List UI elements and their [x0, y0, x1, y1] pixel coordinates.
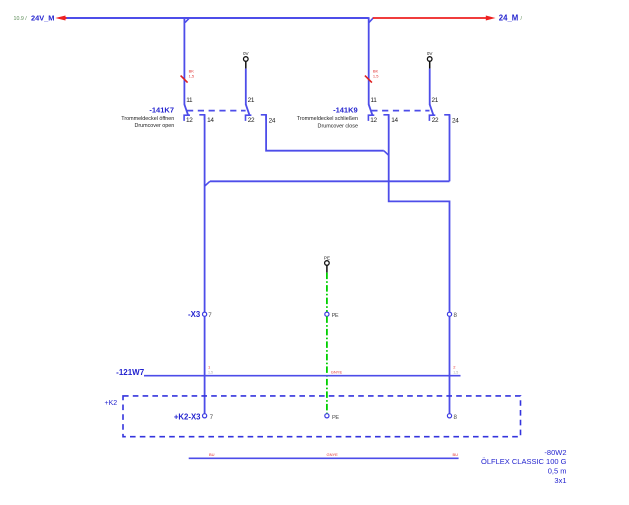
- svg-text:Trommeldeckel öffnen: Trommeldeckel öffnen: [121, 116, 174, 122]
- svg-text:PE: PE: [332, 313, 339, 319]
- wire K9-24 down to net A horizontal: [449, 115, 451, 182]
- svg-text:12: 12: [370, 117, 377, 124]
- svg-text:PE: PE: [332, 415, 339, 421]
- device tag -141K7 with function text: [121, 105, 174, 128]
- wire drop to -141K9 pin 11: [368, 17, 370, 105]
- terminal -X3:8: [447, 312, 457, 319]
- svg-text:22: 22: [432, 117, 439, 124]
- svg-text:+K2: +K2: [105, 400, 118, 407]
- wire drop to -141K7 pin 11: [183, 18, 185, 105]
- svg-text:-141K9: -141K9: [333, 105, 358, 114]
- svg-text:-80W2: -80W2: [544, 448, 566, 457]
- terminal +K2-X3:PE: [325, 414, 340, 421]
- svg-text:Trommeldeckel schließen: Trommeldeckel schließen: [297, 116, 358, 122]
- svg-text:PE: PE: [324, 256, 330, 261]
- svg-text:1,5: 1,5: [453, 370, 458, 374]
- cable -121W7 conductor label 2 / 1,5: [453, 364, 458, 374]
- svg-text:11: 11: [186, 97, 193, 104]
- svg-text:GNYE: GNYE: [331, 369, 343, 374]
- svg-text:3x1: 3x1: [554, 476, 566, 485]
- pin labels -141K7: [186, 97, 276, 124]
- svg-text:21: 21: [432, 97, 439, 104]
- node 24_M target cross-reference text: [499, 14, 523, 23]
- svg-text:+K2-X3: +K2-X3: [174, 413, 201, 422]
- wire top bus 24V_M: [67, 17, 369, 19]
- svg-text:11: 11: [371, 97, 378, 104]
- svg-text:1,5: 1,5: [189, 73, 195, 78]
- wire net A horizontal K7-14 to K9-24: [210, 180, 450, 182]
- svg-text:8: 8: [454, 312, 458, 319]
- device tag -141K9 with function text: [297, 105, 358, 129]
- mechanical linkage dashes -141K7: [187, 110, 246, 112]
- junction bevel at K7 drop: [185, 18, 190, 23]
- wire -X3:PE down to +K2-X3:PE green: [326, 316, 328, 413]
- pin labels -141K9: [370, 97, 459, 124]
- wire K7-24 down and right: [266, 115, 384, 151]
- wire label BK 1,5 on K7 drop (red slash): [181, 69, 195, 83]
- wire label BK 1,5 on K9 drop (red slash): [365, 69, 379, 83]
- wire -X3:8 down to +K2-X3:8: [449, 316, 451, 413]
- cable -121W7 line: [116, 368, 460, 377]
- wire K9-14 down then right: [389, 115, 450, 312]
- junction bevel at K9 corner: [369, 18, 374, 23]
- mechanical linkage dashes -141K9: [371, 110, 429, 112]
- svg-text:14: 14: [391, 117, 398, 124]
- terminal -X3:PE: [325, 312, 339, 319]
- svg-text:-141K7: -141K7: [149, 105, 174, 114]
- svg-text:ÖLFLEX CLASSIC 100 G: ÖLFLEX CLASSIC 100 G: [481, 457, 567, 466]
- wire 0V to -141K7 pin 21: [245, 69, 247, 105]
- svg-text:-X3: -X3: [188, 310, 201, 319]
- contact -141K7 changeover 11-12-14: lever 11: [184, 104, 205, 121]
- svg-text:8: 8: [454, 414, 458, 421]
- wire K7-14 down to -X3:7: [204, 115, 206, 312]
- contact -141K9 changeover 21-22-24: lever 21: [429, 104, 449, 121]
- cable -80W2 line: [189, 457, 459, 459]
- node 24V_M source cross-reference text: [14, 14, 55, 23]
- svg-text:7: 7: [210, 414, 214, 421]
- earth potential PE circle and stub: [324, 256, 330, 273]
- cable -121W7 conductor label 1 / 1,5: [208, 364, 213, 374]
- svg-text:BU: BU: [453, 452, 459, 457]
- svg-text:0V: 0V: [427, 51, 434, 56]
- svg-text:0,5 m: 0,5 m: [548, 467, 567, 476]
- svg-text:21: 21: [248, 97, 255, 104]
- terminal +K2-X3:7: [174, 413, 214, 422]
- svg-text:24: 24: [452, 117, 459, 124]
- interruption point arrow 24_M (right, pointing right): [373, 16, 496, 21]
- terminal +K2-X3:8: [447, 414, 457, 421]
- wire 0V to -141K9 pin 21: [429, 69, 431, 105]
- svg-text:14: 14: [207, 117, 214, 124]
- junction bevel K7-24 into K9-14 wire: [384, 151, 389, 156]
- svg-text:0V: 0V: [243, 51, 250, 56]
- svg-text:-121W7: -121W7: [116, 368, 145, 377]
- contact -141K9 changeover 11-12-14: lever 11: [368, 104, 388, 121]
- potential connection 0V (left) circle and stub: [243, 51, 250, 69]
- svg-text:22: 22: [248, 117, 255, 124]
- contact -141K7 changeover 21-22-24: lever 21: [246, 104, 267, 121]
- terminal -X3:7: [188, 310, 212, 319]
- svg-text:24_M: 24_M: [499, 14, 519, 23]
- wire -X3:7 down to +K2-X3:7: [204, 316, 206, 413]
- svg-text:10.9 /: 10.9 /: [14, 16, 28, 22]
- svg-text:1,5: 1,5: [373, 73, 379, 78]
- svg-text:7: 7: [208, 312, 212, 319]
- potential connection 0V (right) circle and stub: [427, 51, 434, 69]
- svg-text:Drumcover close: Drumcover close: [318, 123, 358, 129]
- svg-text:BU: BU: [209, 452, 215, 457]
- svg-text:GNYE: GNYE: [327, 452, 339, 457]
- svg-text:1,5: 1,5: [208, 370, 213, 374]
- svg-text:24: 24: [269, 117, 276, 124]
- wire PE green-yellow down to -X3:PE: [326, 273, 328, 313]
- interruption point arrow 24V_M (left, pointing left): [55, 16, 67, 21]
- svg-text:12: 12: [186, 117, 193, 124]
- junction bevel net A into K7-14 wire: [205, 181, 210, 186]
- svg-text:24V_M: 24V_M: [31, 14, 54, 23]
- svg-text:Drumcover open: Drumcover open: [134, 123, 174, 129]
- cable -80W2 name and type text: [481, 448, 567, 485]
- structure box +K2 (dashed): [105, 396, 521, 437]
